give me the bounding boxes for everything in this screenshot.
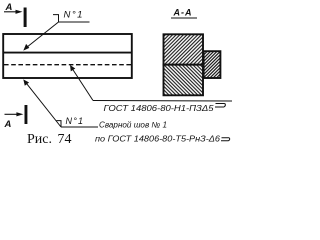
svg-text:Рис. 74: Рис. 74 — [27, 132, 72, 147]
svg-text:N°1: N°1 — [64, 10, 84, 21]
section view title underline — [171, 17, 197, 19]
svg-text:А: А — [4, 119, 12, 130]
section cut mark A (top) : thick bar — [24, 8, 27, 28]
weld label No1 (top) : corner tick — [53, 15, 59, 22]
GOST callout : leader with arrow — [72, 68, 94, 101]
section cut mark A (top) : arrow — [4, 11, 17, 13]
weld label No1 (bottom) : shelf line — [61, 126, 98, 128]
svg-text:ГОСТ 14806-80-Н1-ПЗΔ5: ГОСТ 14806-80-Н1-ПЗΔ5 — [104, 104, 215, 113]
GOST callout : open-square weld symbol — [215, 104, 225, 108]
section: upper plate (hatched /) — [164, 34, 204, 64]
visible weld seam line — [3, 52, 132, 54]
weld label No1 (bottom) : leader with arrow — [26, 82, 62, 127]
GOST callout : shelf line — [93, 100, 232, 103]
weld label No1 (top) : leader with arrow — [27, 22, 59, 48]
second open-square weld symbol — [221, 138, 230, 141]
weld label No1 (bottom) : square tick — [56, 121, 61, 127]
svg-text:Сварной шов № 1: Сварной шов № 1 — [99, 121, 167, 130]
weld label No1 (top) : shelf line — [59, 21, 90, 23]
hidden weld seam dashed line — [4, 64, 132, 66]
plate outline (main view) — [3, 34, 132, 78]
svg-text:по ГОСТ 14806-80-Т5-РнЗ-Δ6: по ГОСТ 14806-80-Т5-РнЗ-Δ6 — [95, 135, 221, 144]
section: small right block (dense hatch) — [204, 51, 221, 78]
svg-text:N°1: N°1 — [66, 116, 85, 126]
section: lower plate (hatched \) — [164, 65, 204, 96]
svg-text:А-А: А-А — [173, 8, 193, 18]
section cut mark A (bottom) : thick bar — [25, 105, 28, 124]
section cut mark A (bottom) : arrow — [5, 113, 19, 115]
